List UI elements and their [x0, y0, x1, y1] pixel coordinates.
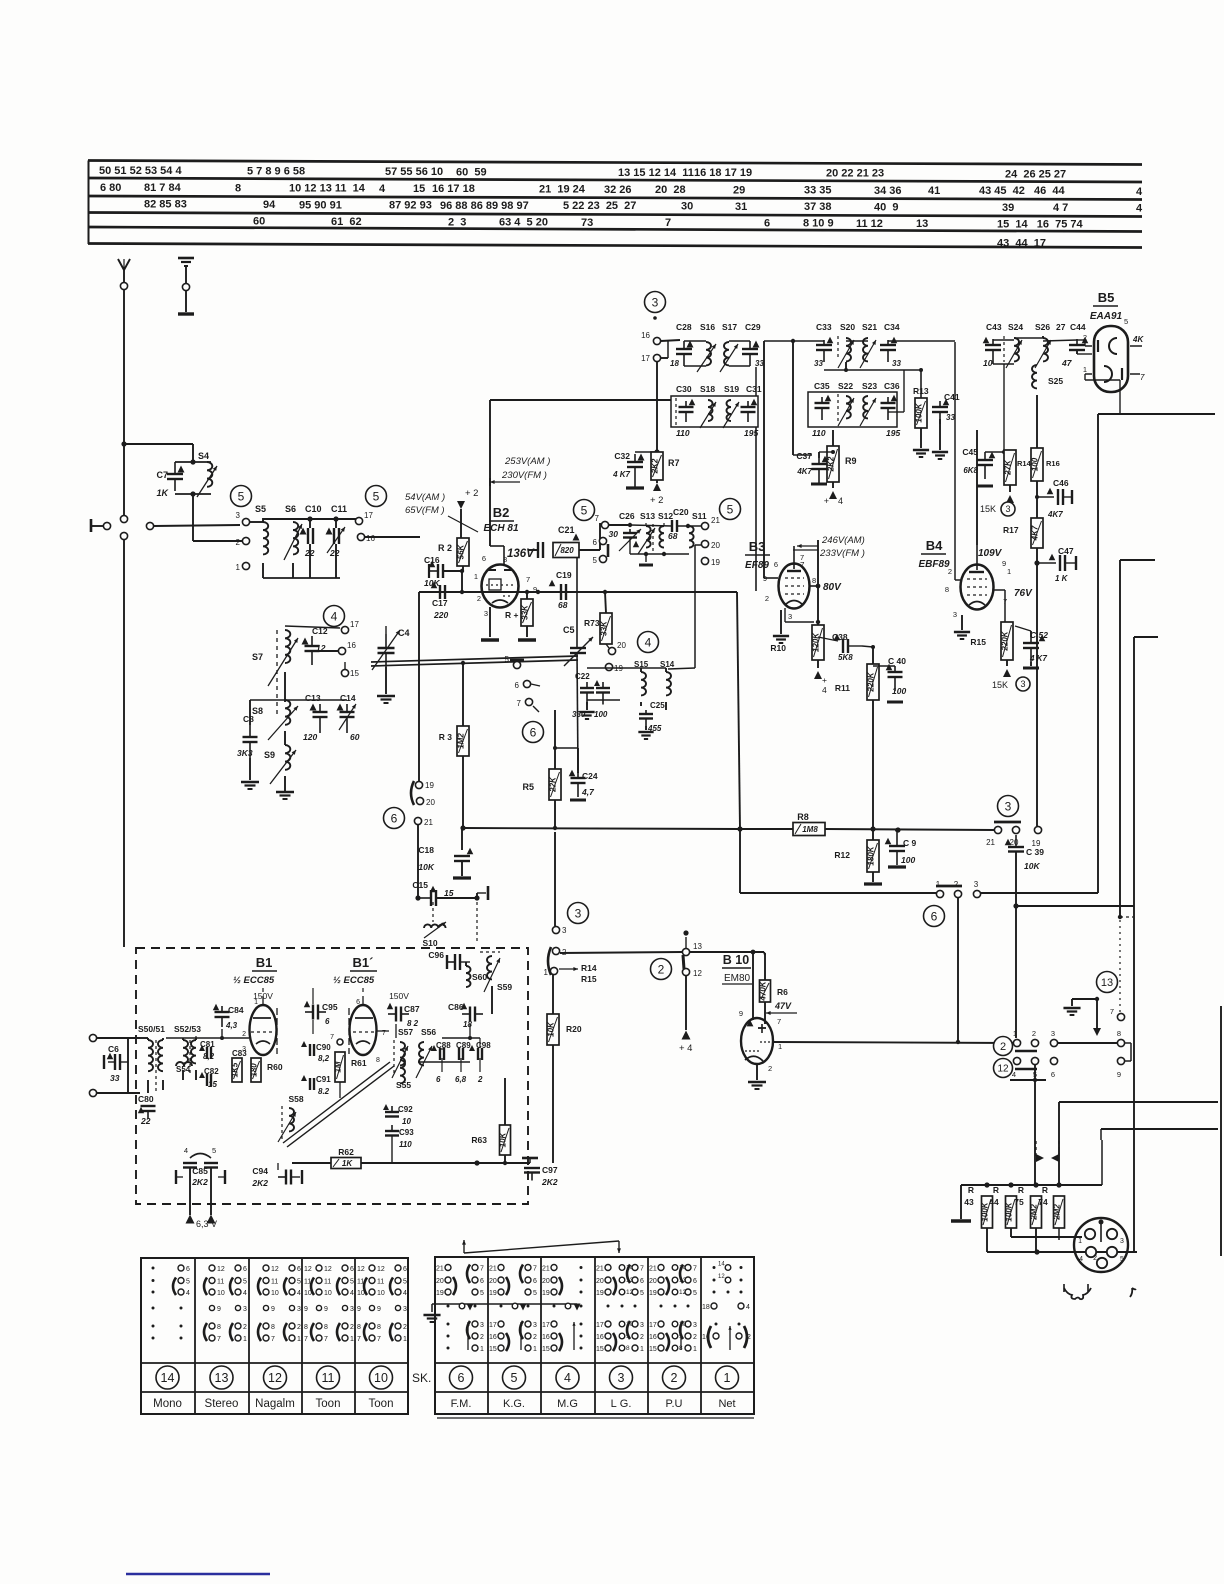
svg-text:16: 16	[596, 1334, 604, 1341]
capacitor C24	[553, 746, 598, 800]
svg-text:8: 8	[945, 585, 949, 594]
capacitor C16	[424, 555, 464, 592]
resistor R14 (27K)	[1004, 450, 1032, 503]
capacitor C46	[1035, 478, 1072, 519]
svg-text:12: 12	[679, 1289, 687, 1296]
wire	[166, 1029, 249, 1040]
svg-text:C4: C4	[398, 628, 410, 638]
svg-text:S21: S21	[862, 322, 877, 332]
wire	[418, 1038, 480, 1062]
svg-text:2: 2	[403, 1324, 407, 1331]
svg-text:4: 4	[1136, 202, 1143, 214]
svg-text:6: 6	[515, 681, 520, 690]
svg-text:R: R	[1042, 1185, 1048, 1195]
svg-text:7: 7	[693, 1266, 697, 1273]
resistor R17	[1003, 481, 1043, 548]
svg-text:34 36: 34 36	[874, 185, 902, 197]
svg-text:21: 21	[986, 838, 995, 847]
svg-text:5: 5	[1124, 317, 1128, 326]
coil S60	[466, 962, 487, 987]
wire	[1118, 560, 1155, 919]
svg-text:6: 6	[297, 1266, 301, 1273]
capacitor C88	[431, 1041, 451, 1084]
svg-text:4: 4	[243, 1290, 247, 1297]
svg-text:+ 2: + 2	[650, 495, 663, 506]
svg-text:2: 2	[747, 1334, 751, 1341]
svg-text:20: 20	[426, 798, 435, 807]
svg-text:6: 6	[391, 811, 398, 825]
svg-text:4 K7: 4 K7	[1029, 654, 1047, 663]
coil S58	[278, 1094, 304, 1142]
svg-text:7: 7	[324, 1336, 328, 1343]
svg-text:2: 2	[671, 1371, 678, 1385]
svg-text:11: 11	[217, 1279, 224, 1286]
svg-text:1: 1	[1013, 1029, 1017, 1038]
tube B2 ECH81 heptode	[474, 505, 537, 618]
svg-text:3: 3	[484, 609, 488, 618]
capacitor C12	[302, 626, 328, 665]
svg-text:4: 4	[186, 1290, 190, 1297]
svg-text:2: 2	[954, 880, 959, 889]
transformer S52/53	[174, 1024, 201, 1080]
svg-text:4K7: 4K7	[1031, 525, 1040, 541]
svg-text:C15: C15	[412, 880, 428, 890]
svg-text:100K: 100K	[915, 402, 924, 422]
svg-text:6 80: 6 80	[100, 182, 121, 194]
svg-text:2: 2	[477, 1075, 483, 1084]
svg-text:110: 110	[399, 1140, 412, 1149]
capacitor C82	[199, 1067, 219, 1089]
svg-text:120: 120	[303, 732, 317, 742]
coil S17	[720, 322, 738, 372]
svg-text:R: R	[1018, 1185, 1024, 1195]
terminal 19	[701, 557, 720, 567]
wire tuning gang	[371, 656, 578, 666]
svg-text:17: 17	[350, 620, 359, 629]
resistor R10	[770, 625, 827, 695]
svg-text:10: 10	[626, 1321, 634, 1328]
capacitor C44	[1061, 322, 1092, 368]
tube B5 EAA91	[1083, 290, 1145, 392]
svg-text:+ 2: + 2	[465, 488, 478, 499]
circled 5	[366, 486, 387, 507]
svg-text:C90: C90	[316, 1043, 331, 1052]
svg-text:3: 3	[1005, 504, 1010, 514]
capacitor C8	[237, 700, 258, 758]
svg-text:19: 19	[596, 1290, 604, 1297]
wire AVC bus	[460, 825, 742, 831]
svg-text:6: 6	[458, 1371, 465, 1385]
svg-text:1K: 1K	[342, 1159, 353, 1168]
wire	[560, 952, 682, 953]
svg-text:6: 6	[593, 538, 598, 547]
node switch SK10 contacts	[357, 1265, 407, 1343]
svg-text:12: 12	[268, 1371, 282, 1385]
svg-text:R8: R8	[797, 812, 809, 822]
svg-text:10: 10	[271, 1290, 279, 1297]
svg-text:S56: S56	[421, 1027, 436, 1037]
svg-text:8: 8	[217, 1324, 221, 1331]
svg-text:22: 22	[304, 548, 315, 558]
svg-text:5: 5	[505, 655, 510, 664]
terminal 16	[357, 533, 420, 543]
svg-text:2K2: 2K2	[541, 1177, 558, 1187]
svg-text:5: 5	[727, 502, 734, 516]
svg-text:4: 4	[297, 1290, 301, 1297]
svg-text:4K7: 4K7	[796, 467, 812, 476]
svg-text:SK.: SK.	[412, 1371, 431, 1385]
svg-text:43 45 42 46 44: 43 45 42 46 44	[979, 185, 1066, 197]
svg-text:1: 1	[236, 563, 241, 572]
svg-text:15: 15	[413, 183, 425, 195]
coil S18	[700, 384, 716, 428]
svg-text:220K: 220K	[1001, 630, 1010, 651]
svg-text:8: 8	[626, 1345, 630, 1352]
capacitor C18	[418, 828, 473, 878]
svg-text:R7: R7	[668, 458, 680, 468]
svg-text:5K8: 5K8	[838, 653, 853, 662]
ground	[954, 615, 970, 639]
terminal 2	[236, 537, 250, 547]
svg-text:39: 39	[1002, 202, 1014, 214]
wire	[630, 523, 701, 528]
svg-text:13: 13	[916, 218, 928, 230]
svg-text:C29: C29	[745, 322, 761, 332]
svg-text:1: 1	[350, 1336, 354, 1343]
svg-text:S22: S22	[838, 381, 853, 391]
svg-text:5: 5	[238, 489, 245, 503]
svg-text:3: 3	[1020, 679, 1025, 689]
svg-text:5: 5	[350, 1279, 354, 1286]
wire	[961, 1140, 1102, 1185]
svg-text:1K: 1K	[156, 488, 169, 498]
svg-text:4: 4	[350, 1290, 354, 1297]
svg-text:8: 8	[1117, 1029, 1121, 1038]
svg-text:8 10 9: 8 10 9	[803, 218, 834, 230]
svg-text:R: R	[993, 1185, 999, 1195]
circled 12	[994, 1059, 1013, 1078]
node junction	[121, 441, 126, 446]
svg-text:195: 195	[886, 428, 900, 438]
svg-text:C43: C43	[986, 322, 1002, 332]
mechanical link	[1036, 1141, 1059, 1162]
wire	[123, 290, 125, 515]
svg-text:8.2: 8.2	[318, 1087, 330, 1096]
tube B10 EM80	[722, 953, 782, 1073]
svg-text:1: 1	[640, 1346, 644, 1353]
svg-text:R 2: R 2	[438, 543, 452, 553]
svg-text:1K5: 1K5	[231, 1062, 240, 1077]
switch contact 1	[1013, 1029, 1021, 1047]
svg-text:C80: C80	[138, 1094, 154, 1104]
svg-text:6: 6	[533, 1278, 537, 1285]
node switch number 11	[317, 1366, 340, 1389]
wire	[661, 340, 680, 358]
svg-text:2: 2	[640, 1334, 644, 1341]
svg-text:S50/51: S50/51	[138, 1024, 165, 1034]
svg-text:16: 16	[702, 1334, 710, 1341]
svg-text:6: 6	[436, 1075, 441, 1084]
svg-text:11: 11	[322, 1371, 335, 1385]
svg-text:12: 12	[324, 1266, 332, 1273]
wire	[888, 370, 904, 412]
coil S59	[480, 952, 512, 1014]
svg-text:S11: S11	[692, 511, 707, 521]
svg-text:4 7: 4 7	[1053, 202, 1068, 214]
wire	[668, 545, 701, 669]
svg-text:6: 6	[186, 1266, 190, 1273]
wire pointer	[462, 1240, 621, 1253]
node label SK	[412, 1371, 431, 1385]
coil S9	[264, 745, 296, 792]
svg-text:R11: R11	[835, 683, 850, 693]
capacitor C91	[301, 1075, 331, 1096]
svg-text:C22: C22	[575, 672, 590, 681]
ground	[951, 1185, 971, 1221]
node switch SK12 contacts	[258, 1265, 301, 1343]
terminal dipole b	[89, 1089, 140, 1096]
coil S21	[860, 322, 877, 368]
svg-text:65V(FM ): 65V(FM )	[405, 505, 445, 516]
capacitor C97	[522, 1158, 558, 1187]
capacitor C80	[138, 1094, 156, 1126]
svg-text:13: 13	[215, 1371, 229, 1385]
capacitor C89	[455, 1041, 471, 1084]
switch contact 20	[416, 797, 435, 807]
capacitor C6	[104, 1038, 128, 1093]
svg-text:2M2: 2M2	[1030, 1204, 1039, 1221]
wire	[276, 776, 294, 799]
supply 6.3V	[186, 1215, 218, 1230]
wire	[124, 443, 193, 445]
resistor R75	[1014, 1185, 1041, 1228]
svg-text:B1: B1	[256, 955, 273, 970]
tube B1 half ECC85	[233, 955, 277, 1055]
svg-text:8: 8	[357, 1324, 361, 1331]
svg-text:Mono: Mono	[153, 1398, 182, 1410]
svg-text:20: 20	[542, 1278, 550, 1285]
capacitor C32	[612, 451, 657, 488]
svg-text:30: 30	[681, 201, 693, 213]
supply arrow +2	[457, 488, 478, 538]
svg-text:7: 7	[357, 1336, 361, 1343]
svg-text:3: 3	[297, 1306, 301, 1313]
svg-text:S18: S18	[700, 384, 715, 394]
svg-text:8: 8	[304, 1324, 308, 1331]
svg-text:74: 74	[1038, 1197, 1048, 1207]
svg-text:3: 3	[788, 612, 792, 621]
svg-text:7: 7	[665, 217, 671, 229]
svg-text:S19: S19	[724, 384, 739, 394]
node switch SK11 contacts	[304, 1265, 354, 1343]
node junction	[870, 826, 900, 832]
terminal 6	[593, 537, 607, 547]
svg-text:S6: S6	[285, 504, 296, 514]
svg-text:33: 33	[110, 1073, 120, 1083]
svg-text:5: 5	[640, 1290, 644, 1297]
svg-text:20: 20	[489, 1278, 497, 1285]
svg-text:R16: R16	[1046, 459, 1060, 468]
svg-text:15K: 15K	[980, 504, 996, 514]
capacitor C37	[796, 451, 828, 484]
wire	[819, 450, 835, 458]
svg-text:EBF89: EBF89	[918, 559, 950, 570]
svg-text:S60: S60	[472, 972, 487, 982]
svg-text:11: 11	[377, 1279, 384, 1286]
svg-text:S16: S16	[700, 322, 715, 332]
svg-text:C94: C94	[252, 1166, 268, 1176]
svg-text:C46: C46	[1053, 478, 1069, 488]
capacitor C20	[668, 507, 689, 541]
svg-text:57 55 56 10: 57 55 56 10	[385, 166, 443, 178]
svg-text:8: 8	[812, 576, 816, 585]
ground	[748, 1064, 766, 1089]
wire	[764, 341, 818, 625]
ground	[481, 607, 499, 640]
switch contact 19	[1032, 826, 1042, 848]
svg-text:5: 5	[1120, 1256, 1124, 1263]
coil S11	[689, 511, 707, 548]
terminal 15	[341, 662, 359, 678]
wire	[419, 427, 756, 829]
svg-text:150V: 150V	[389, 991, 409, 1001]
svg-text:½ ECC85: ½ ECC85	[333, 975, 375, 986]
svg-text:1: 1	[778, 1042, 782, 1051]
svg-text:8: 8	[376, 1057, 380, 1064]
capacitor C39	[1005, 835, 1045, 906]
svg-text:S25: S25	[1048, 376, 1063, 386]
circled 2	[651, 959, 672, 980]
svg-text:1: 1	[533, 1346, 537, 1353]
svg-text:4,3: 4,3	[225, 1021, 238, 1030]
svg-text:10 12 13 11 14: 10 12 13 11 14	[289, 183, 366, 195]
svg-text:C20: C20	[673, 507, 689, 517]
svg-text:5 7 8 9 6 58: 5 7 8 9 6 58	[247, 166, 305, 178]
svg-text:C25: C25	[650, 701, 665, 710]
circled 2	[994, 1037, 1013, 1056]
wire	[1013, 903, 1134, 908]
svg-text:15: 15	[208, 1080, 217, 1089]
node switch table SK10-SK14 frame	[141, 1258, 408, 1414]
circled 6	[924, 906, 945, 927]
node label Toon	[369, 1398, 394, 1410]
capacitor C31	[741, 384, 762, 438]
node junction	[751, 950, 756, 1020]
svg-text:3: 3	[480, 1322, 484, 1329]
svg-text:100: 100	[901, 855, 915, 865]
tube B1&#180; half ECC85	[333, 955, 409, 1064]
svg-text:4: 4	[403, 1290, 407, 1297]
svg-text:Nagalm: Nagalm	[255, 1398, 295, 1410]
capacitor C92	[383, 1104, 413, 1126]
svg-text:4 K7: 4 K7	[612, 470, 630, 479]
svg-text:6: 6	[356, 999, 360, 1006]
capacitor C93	[385, 1125, 414, 1149]
circled 6	[384, 808, 405, 829]
svg-text:12: 12	[997, 1064, 1009, 1075]
svg-text:14: 14	[718, 1262, 725, 1268]
node label Toon	[316, 1398, 341, 1410]
svg-text:3: 3	[652, 295, 659, 309]
svg-text:R20: R20	[566, 1024, 582, 1034]
svg-text:C89: C89	[456, 1041, 471, 1050]
node junction	[683, 930, 688, 935]
svg-text:21: 21	[596, 1266, 604, 1273]
svg-text:1: 1	[297, 1336, 301, 1343]
wire	[981, 414, 1098, 893]
svg-text:4: 4	[822, 685, 827, 695]
svg-text:5: 5	[212, 1146, 216, 1155]
svg-text:470K: 470K	[759, 980, 768, 1001]
svg-text:Stereo: Stereo	[205, 1398, 239, 1410]
svg-text:S13: S13	[640, 511, 655, 521]
svg-text:3: 3	[403, 1306, 407, 1313]
terminal AM aerial plug	[91, 519, 111, 532]
svg-text:1: 1	[724, 1371, 731, 1385]
svg-text:16: 16	[641, 331, 650, 340]
svg-text:Net: Net	[718, 1398, 735, 1410]
wire	[690, 952, 765, 955]
switch contact 5	[1031, 1057, 1038, 1079]
svg-text:C 52: C 52	[1030, 630, 1048, 640]
coil S16	[697, 322, 716, 372]
switch contact 20	[1010, 826, 1020, 847]
switch contact 21	[986, 826, 1002, 847]
coil S13	[638, 511, 655, 554]
svg-text:10: 10	[983, 358, 993, 368]
wire	[1034, 548, 1039, 826]
svg-text:10: 10	[374, 1371, 388, 1385]
svg-text:1M8: 1M8	[802, 825, 818, 834]
svg-text:5: 5	[533, 1290, 537, 1297]
resistor R9	[824, 430, 857, 506]
node switch number 3	[610, 1366, 633, 1389]
svg-text:2 3: 2 3	[448, 216, 466, 228]
circled 5	[574, 500, 595, 521]
switch contact 12	[682, 968, 702, 978]
resistor R61	[334, 1052, 367, 1082]
node label Net	[718, 1398, 735, 1410]
svg-text:16: 16	[366, 534, 375, 543]
capacitor C47	[1037, 546, 1076, 583]
svg-text:60: 60	[350, 732, 360, 742]
svg-text:3: 3	[350, 1306, 354, 1313]
svg-text:47: 47	[1061, 358, 1073, 368]
svg-text:2: 2	[658, 962, 665, 976]
svg-text:C93: C93	[399, 1128, 414, 1137]
wire	[1058, 1228, 1060, 1240]
svg-text:7: 7	[480, 1266, 484, 1273]
resistor R60	[250, 1058, 283, 1082]
svg-text:6: 6	[764, 217, 770, 229]
svg-text:81 7 84: 81 7 84	[144, 182, 182, 194]
svg-text:2: 2	[1000, 1041, 1006, 1053]
svg-text:13 15 12 14 11: 13 15 12 14 11	[618, 167, 694, 179]
svg-text:4: 4	[746, 1304, 750, 1311]
node switch number 5	[503, 1366, 526, 1389]
node label 76V	[994, 588, 1033, 622]
svg-text:C88: C88	[436, 1041, 451, 1050]
wire	[785, 608, 820, 624]
wire: top connection table rulings	[88, 161, 1142, 248]
circled 3	[998, 796, 1019, 817]
svg-text:3: 3	[1005, 799, 1012, 813]
svg-text:6: 6	[640, 1278, 644, 1285]
node switch SK6 FM contacts	[436, 1265, 484, 1354]
svg-text:9: 9	[217, 1306, 221, 1313]
svg-text:13: 13	[679, 1277, 687, 1284]
svg-text:16: 16	[347, 641, 356, 650]
